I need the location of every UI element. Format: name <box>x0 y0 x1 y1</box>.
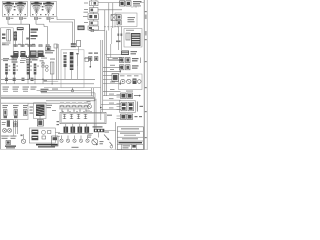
wire vertical x111 y28-44 <box>110 28 112 44</box>
heater bar HBR <box>94 129 105 132</box>
relay box RB4 right in WB1 <box>52 136 59 146</box>
heater blob HB2 <box>71 127 76 133</box>
dashed wire y26.8 <box>104 26 120 28</box>
title block divider 2 <box>117 136 143 138</box>
bracket right of RB2 <box>136 102 138 112</box>
right component row RA2 <box>120 65 125 70</box>
small component x54 y44 <box>54 44 57 48</box>
CSB top ticks <box>63 111 64 113</box>
lower left box LB1 <box>1 103 28 119</box>
bus branch wire y109.4 <box>101 108 121 110</box>
fuse T symbol T1 <box>63 114 66 119</box>
label text right of FB2 <box>133 1 142 2</box>
heated window switch box SB1 <box>37 120 43 127</box>
fuse T symbol T3 <box>77 114 80 119</box>
connector pair P5 <box>46 45 49 47</box>
small glyphs x56-60 y120-126 <box>57 121 60 122</box>
dark cluster in MR1 <box>131 33 141 46</box>
wire bend to x74.5 <box>57 17 75 44</box>
label dash x116 y41 <box>116 41 121 43</box>
bus bend right y57.5 <box>107 57 122 59</box>
right wide box RW1 <box>119 74 143 90</box>
small marks on x43 <box>42 63 44 65</box>
bus branch wire y95.6 <box>103 95 121 97</box>
right row RB2 y101 box <box>120 101 136 113</box>
transistor glyph left of bus <box>88 105 92 109</box>
wire right bus top y2.6 <box>98 2 122 4</box>
wire vertical x123.5 below J1 <box>120 27 122 51</box>
vertical bus wire x57 left <box>56 44 58 80</box>
title block divider 3 <box>117 140 143 142</box>
bus branch wire y91.3 <box>103 90 121 92</box>
title block divider 4 <box>117 143 143 145</box>
glyph stems into connector box <box>61 108 63 113</box>
text cluster x46 y105 <box>47 105 53 106</box>
connector C2 <box>19 17 22 19</box>
title text 1 <box>121 128 139 129</box>
nested step wire y90.6 <box>37 90 92 92</box>
component in LU1 <box>7 120 10 127</box>
wire vertical x120.5 below J1 <box>117 27 119 51</box>
small box component x46 y46 <box>46 47 51 52</box>
bus branch wire y75.3 <box>103 74 112 76</box>
cluster in LB1 c <box>23 105 28 106</box>
wire joins between relay stack <box>93 6 95 8</box>
jog wire y87.5 <box>44 87 101 89</box>
mid right box MR1 <box>124 29 142 48</box>
symbol S1 in left box <box>2 34 5 36</box>
lamp column L1 resistor <box>5 64 8 75</box>
label text in J1 <box>128 17 136 18</box>
lamp unit box LU1 <box>1 120 14 137</box>
left page border wire <box>0 28 2 150</box>
ground bus wire y133.7 <box>58 133 93 135</box>
fuse T symbol T2 <box>70 114 73 119</box>
diode arrow DA2 <box>110 142 113 146</box>
ground symbol below CB1 <box>72 88 74 90</box>
connector pair P6 <box>28 44 31 46</box>
wire H3 line in CB1 <box>77 53 79 66</box>
gauge G2 <box>15 2 26 17</box>
vertical bus wire x29.5 <box>29 24 31 79</box>
horizontal bus wire y83.8 <box>1 83 94 85</box>
gauge symbols in RW1 <box>121 79 125 83</box>
stack side labels <box>84 3 88 4</box>
wires x15.6 x17.6 down <box>15 120 17 135</box>
sensor box x76 y40 <box>77 41 81 47</box>
label text right of fuses <box>45 50 55 51</box>
wire bend at x44 <box>43 24 45 26</box>
fuse block FB1 top right <box>120 1 125 6</box>
wires from WB1 right <box>55 131 60 133</box>
dash dot wire y6 <box>131 6 139 8</box>
plug label dashes <box>2 44 6 45</box>
small text x39 y60 <box>40 60 44 61</box>
connector C3 <box>34 17 37 19</box>
wire L2 down <box>13 75 15 80</box>
connector C4 <box>47 17 50 19</box>
thermo switch TS1 <box>92 139 98 145</box>
rbar side ticks <box>9 66 11 67</box>
label above heater bar <box>93 126 103 127</box>
label text row y56 dense <box>11 55 19 57</box>
bulb B1 in LU1 <box>3 128 7 132</box>
lamp column L3 label <box>26 57 33 58</box>
labels in LU1 <box>2 122 6 123</box>
motor cluster in WB1 <box>32 130 39 135</box>
washer unit box WB1 <box>29 128 55 143</box>
lamp symbol row LS4 <box>79 136 82 143</box>
right border grid tick y88 <box>145 87 147 88</box>
relay stack box K5 <box>88 26 99 30</box>
right border tiny text y15 <box>145 15 147 20</box>
label 3R8 <box>17 27 24 30</box>
wire heater bar to right bus <box>104 130 115 132</box>
lamp symbol row LS3 <box>73 136 76 143</box>
cluster in LB1 a <box>3 105 9 106</box>
vertical bus wire x58 right <box>57 44 59 80</box>
MR1 top label <box>126 30 134 31</box>
wire L3 down <box>27 75 29 80</box>
printed circuit box left <box>1 28 14 60</box>
nested step wire y92.9 <box>41 92 95 94</box>
connector pair P2 <box>21 44 24 46</box>
dark label block x83 y26 <box>78 26 85 31</box>
jog wire y81 <box>47 80 58 82</box>
motor glyph MG4 <box>78 105 82 111</box>
lamp symbol row LS2 <box>66 136 69 143</box>
M glyph labels <box>60 103 64 104</box>
title text 4 dense <box>119 142 143 144</box>
dash marks near x108 y115 <box>107 115 112 116</box>
terminal dots box U2 <box>42 6 44 7</box>
wires from bars down <box>64 67 66 79</box>
wire bend to x72.5 <box>50 20 73 44</box>
wire from C2 down <box>20 20 22 25</box>
connector pair P4 <box>39 45 42 47</box>
heater blob HB1 <box>64 127 69 133</box>
bus branch wire y59.8 <box>107 59 121 61</box>
wire below heater bar <box>98 132 100 137</box>
harness lower wire y100.8 <box>46 100 95 102</box>
wire horizontal joining C1 C2 to bus <box>8 23 30 25</box>
wire vertical x110.8 <box>110 44 112 58</box>
label left of TS1 <box>88 135 92 136</box>
branch end labels lower <box>109 94 114 95</box>
bulb B2 in LU1 <box>8 128 12 132</box>
fuse row F3 <box>21 51 26 56</box>
right component row RA1 <box>120 58 125 63</box>
motor glyph MG2 <box>66 105 70 111</box>
right border grid tick y12 <box>145 11 147 12</box>
instrument cluster box U1 <box>3 2 28 17</box>
extra in-box marks LB1 <box>4 116 8 118</box>
right row RB3 y114 <box>121 114 127 120</box>
wire horizontal C3 segment <box>36 23 44 25</box>
wire L4 down <box>34 75 36 80</box>
lamp column L4 label <box>32 57 39 58</box>
wire vertical x15.6 <box>15 31 17 47</box>
bus branch wire y100.1 <box>103 99 121 101</box>
wire into fuse row <box>47 47 49 51</box>
right border grid tick y112 <box>145 111 147 112</box>
wire vertical x113 <box>112 3 114 28</box>
gauge G1 <box>3 2 14 17</box>
vertical bus wire x106.6 <box>106 31 108 97</box>
bottom page border <box>1 149 148 151</box>
component in MR1 left <box>126 33 130 40</box>
wire column x43 <box>42 60 44 79</box>
lamp column L2 resistor <box>13 64 16 75</box>
relay stack box K1 <box>90 1 99 6</box>
branch end ticks <box>120 59 121 61</box>
wire x52 down <box>51 74 53 79</box>
vertical bus wire x102.7 <box>102 40 104 112</box>
right border grid tick y62 <box>145 61 147 62</box>
right border grid tick y138 <box>145 137 147 138</box>
title lower cells <box>121 144 123 149</box>
connector strip box CSB inner line <box>61 114 105 123</box>
band to bus corner verticals <box>90 88 92 96</box>
label below RW1 <box>126 91 133 92</box>
main harness band line 2 <box>1 96 94 98</box>
vertical bus wire x100.8 <box>100 40 102 120</box>
motor glyph MG1 <box>60 105 64 111</box>
bottom left dark text <box>5 146 16 147</box>
label rows y135-140 left <box>2 136 9 137</box>
bus branch wire y79.6 <box>103 79 112 81</box>
cluster in LB1 b <box>13 105 19 106</box>
terminal dots box U1 <box>14 6 16 7</box>
label dashes above band <box>3 91 8 92</box>
junction dot on bus <box>100 107 102 109</box>
right border tiny text y32 <box>145 31 147 36</box>
relay stack box K2 <box>90 8 99 13</box>
label mid bottom <box>100 141 104 142</box>
right border grid tick y40 <box>145 39 147 40</box>
connector pair P3 <box>32 45 35 47</box>
bottom left component BL1 <box>6 141 11 145</box>
fuse row F4 <box>30 51 37 57</box>
inline connector on y30.5 wire <box>91 29 94 31</box>
gauge G4 <box>43 2 54 17</box>
title block divider 1 <box>117 130 143 132</box>
wire vertical x109 <box>108 3 110 31</box>
branch end labels upper <box>113 58 119 59</box>
lamp column L1 label <box>3 58 9 59</box>
connector stack above CB1 <box>71 43 76 45</box>
dark text band bottom center-left <box>36 144 58 146</box>
lower cluster below MR1 <box>121 51 129 56</box>
lamp symbol row LS1 <box>60 136 63 143</box>
fuse row F2 <box>14 51 19 56</box>
wire jog to fuse column <box>44 27 48 45</box>
center box CB1 <box>61 50 84 88</box>
vertical bus wire x104.8 <box>104 10 106 96</box>
title text 3 <box>122 138 138 139</box>
right page border inner line <box>143 0 145 150</box>
bus branch wire y71.3 <box>103 70 121 72</box>
wire to right border from FB2 text <box>140 2 144 4</box>
fuse row F5 <box>38 51 44 57</box>
light text cluster x21 y60 <box>20 60 26 61</box>
tiny label bottom center <box>72 147 79 148</box>
wire L1 down <box>6 75 8 80</box>
fuse block FB2 top right <box>126 1 131 6</box>
main harness band line 1 <box>1 95 94 97</box>
faint label dash x84 y12 <box>84 12 89 13</box>
small marks near bus x29.5 <box>26 38 29 40</box>
connector marks on J1 drop wires <box>118 34 120 36</box>
horizontal bus wire y79.3 <box>1 78 95 80</box>
bus branch wire y67.3 <box>103 66 121 68</box>
right row RB1 y93 <box>121 93 127 99</box>
diode arrow DA1 <box>104 135 109 140</box>
title text 2 <box>120 133 140 134</box>
relay stack box K4 <box>90 21 99 25</box>
main harness band line 3 <box>1 98 94 100</box>
dark component on wire x15.6 <box>14 32 17 41</box>
lamp column L3 resistor <box>27 64 30 75</box>
inline connectors on y79.3 <box>5 78 8 79</box>
blob stems up <box>65 124 67 127</box>
bottom component BL2 with bulb <box>23 134 25 139</box>
motor M1 <box>112 74 119 82</box>
component in J1 a <box>117 15 121 20</box>
component column x52 <box>50 62 54 74</box>
bus bend right y60.5 <box>109 58 123 61</box>
instrument cluster box U2 <box>31 2 57 17</box>
heater blob HB3 <box>78 127 83 133</box>
feed wires into right rows <box>117 94 121 96</box>
motor glyph MG5 <box>84 105 88 111</box>
heater bar H2 in CB1 <box>70 52 74 70</box>
small component x14 y122 <box>14 122 17 127</box>
bus branch wire y104.6 <box>101 104 121 106</box>
wire horizontal y30.5 to bus <box>89 30 105 32</box>
wire from C1 down <box>7 20 9 25</box>
junction dots on y79.3 <box>6 79 7 80</box>
band drop verticals to heater <box>93 97 95 129</box>
gauge G3 <box>31 2 42 17</box>
arrow dash right of RB1 <box>134 95 139 97</box>
connector C1 <box>6 17 9 19</box>
component D1 box with cross <box>111 15 117 21</box>
connector strip box CSB outer <box>60 112 106 123</box>
stack feed stubs to top <box>91 0 93 1</box>
relay stack box K3 <box>88 14 99 20</box>
junction box J1 top right <box>115 13 137 27</box>
small marks x44 y80 <box>44 80 48 81</box>
wire from C3 down <box>35 20 37 25</box>
lamp column L4 resistor <box>34 64 37 75</box>
connector pair P1 <box>14 44 17 46</box>
indicator circles x46.8 <box>45 65 48 68</box>
bus bend right y54.5 <box>105 54 122 56</box>
plug side labels <box>10 18 13 19</box>
heater blob HB4 <box>85 127 90 133</box>
heater bar H1 in CB1 <box>64 55 67 67</box>
ignition switch hatched block <box>34 103 47 119</box>
stubs below y79.3 <box>6 79 8 84</box>
wire right bus y9.8 <box>98 9 122 11</box>
switch symbols in WB1 <box>42 130 46 134</box>
stubs below y79.3 mid <box>34 79 36 84</box>
component flasher F1 <box>7 30 11 42</box>
fuse T symbol T4 <box>84 114 87 119</box>
bus branch wire y83.6 <box>103 83 121 85</box>
lamp symbol row LS5 <box>86 136 89 143</box>
ignition side marks <box>30 107 34 108</box>
wire vertical x22.5 <box>22 31 24 47</box>
wire vertical x115.6 <box>115 122 117 150</box>
label cluster A1 <box>31 29 39 31</box>
label text in left box <box>2 43 11 44</box>
right page border outer line <box>146 0 148 150</box>
wire x90.3 with junction <box>89 61 91 68</box>
harness lower wire y103.2 <box>1 102 91 104</box>
connector cluster x88-99 y52 <box>89 53 93 54</box>
component in J1 b <box>117 20 121 25</box>
side wire right of CB1 <box>84 59 91 63</box>
lamp column L2 label <box>12 57 19 58</box>
label text rows y86-92 left <box>3 87 10 88</box>
motor glyph MG3 <box>72 105 76 111</box>
labels above RW1 <box>120 75 125 76</box>
title block box <box>117 127 143 150</box>
